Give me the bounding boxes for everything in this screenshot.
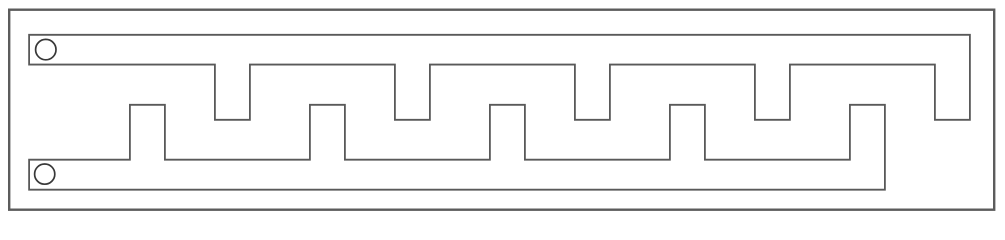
electrode E2 (bottom comb: bus bar, 5 up teeth) <box>29 105 885 190</box>
electrode E1 (top comb: bus bar, 4 down teeth, right end leg) <box>29 35 970 120</box>
pad hole H2 (bottom electrode) <box>35 164 55 184</box>
pad hole H1 (top electrode) <box>36 39 56 59</box>
